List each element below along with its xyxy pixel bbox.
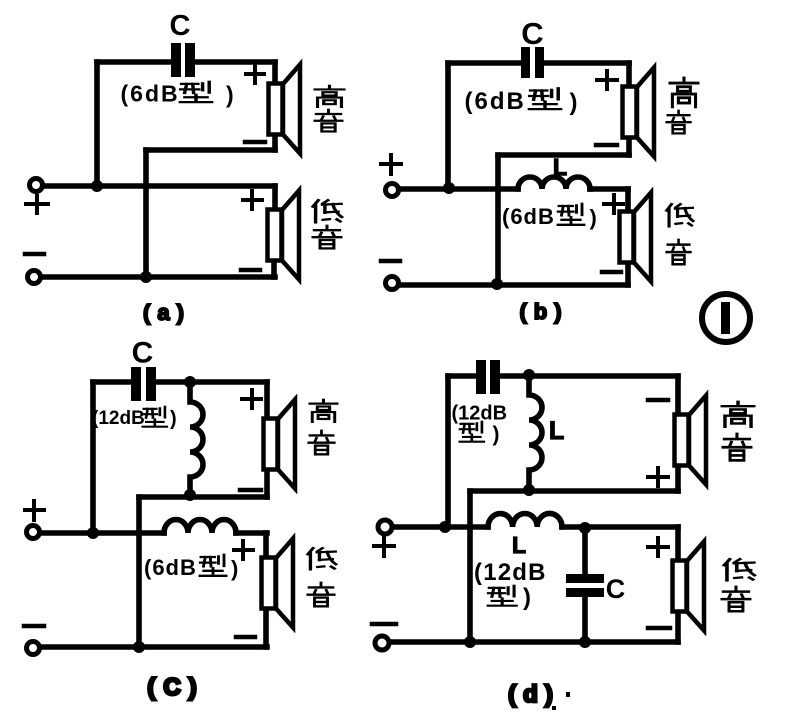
label - tweeter (d) [648, 398, 668, 403]
label 音 (c) [309, 431, 334, 455]
label + woofer (d) [648, 538, 668, 556]
wire b plus rail left [400, 186, 518, 192]
label 低 (a) [313, 200, 342, 222]
label 高 (a) [315, 86, 344, 107]
node junction (d) minus rail cap [579, 636, 591, 648]
wire d plus rail left [394, 524, 488, 530]
inductor L (b) [518, 177, 590, 189]
series inductor L (c) [164, 520, 236, 534]
node junction (c) plus rail [87, 527, 99, 539]
node junction (a) minus rail [140, 271, 152, 283]
wire a woofer bottom vertical [271, 260, 277, 277]
speaker tweeter (b) [623, 68, 655, 157]
svg-text:): ) [590, 205, 597, 230]
wire a tweeter minus vertical [143, 150, 149, 277]
svg-text:(12dB: (12dB [452, 403, 508, 425]
node junction (c) tweeter bottom [184, 489, 196, 501]
label - input (c) [24, 624, 44, 629]
terminal + (d) [378, 520, 392, 534]
wire d tweeter minus vertical [467, 491, 473, 642]
wire b woofer bottom vertical [625, 263, 631, 285]
wire c tweeter right vertical [264, 382, 270, 418]
terminal + (a) [30, 179, 43, 192]
label + woofer (a) [243, 191, 262, 209]
svg-text:L: L [553, 154, 567, 180]
node junction (c) top wire [184, 376, 196, 388]
speaker tweeter (c) [264, 400, 296, 489]
label 高 (c) [310, 400, 337, 422]
label 高 (d) [722, 402, 754, 427]
capacitor C (c) [131, 367, 156, 401]
node junction (d) plus rail left [439, 521, 451, 533]
label (6dB型) (a) [121, 81, 234, 108]
wire b woofer top vertical [625, 189, 631, 211]
shunt inductor L (c) [190, 382, 203, 494]
label - woofer (a) [241, 268, 260, 273]
terminal - (d) [375, 636, 389, 650]
speaker woofer (c) [262, 539, 294, 628]
label - woofer (b) [602, 270, 621, 275]
terminal - (c) [27, 642, 40, 655]
label 型) tweeter (d) [460, 422, 500, 446]
wire d woofer bottom vertical [675, 612, 681, 642]
shunt capacitor C (d) [566, 574, 604, 597]
svg-text:(C): (C) [147, 674, 204, 701]
svg-text:(6dB: (6dB [121, 81, 180, 107]
wire b minus rail [400, 282, 628, 288]
shunt inductor L (d) [529, 376, 542, 490]
speaker woofer (b) [620, 193, 652, 282]
wire c woofer bottom vertical [263, 607, 269, 647]
svg-text:(a): (a) [143, 300, 191, 325]
node junction (a) plus rail [91, 180, 103, 192]
wire a woofer top vertical [272, 186, 278, 209]
wire b top left [448, 60, 520, 66]
label 型) woofer (d) [488, 584, 531, 611]
label + tweeter (c) [242, 390, 261, 408]
wire a tweeter bottom [146, 147, 275, 153]
svg-text:(12dB: (12dB [474, 559, 547, 586]
label 低 (b) [667, 204, 693, 226]
svg-text:): ) [231, 556, 238, 581]
wire b top right [545, 60, 629, 66]
label + tweeter (b) [597, 71, 617, 89]
label + woofer (c) [234, 541, 253, 559]
capacitor C series (d) [476, 360, 500, 394]
wire b tweeter bottom [498, 152, 629, 158]
node junction (b) plus rail [443, 182, 455, 194]
wire b tweeter right vertical [626, 63, 632, 155]
wire c tweeter right vertical lower [264, 470, 270, 497]
series inductor L (d) [488, 513, 562, 527]
label 音 (a) [313, 226, 341, 249]
svg-text:): ) [493, 423, 500, 446]
capacitor C (a) [171, 43, 195, 77]
terminal - (a) [28, 271, 41, 284]
wire c top right [156, 379, 267, 385]
wire c left vertical [90, 382, 96, 533]
node junction (d) top wire [523, 369, 535, 381]
node junction (b) minus rail [491, 278, 503, 290]
svg-text:): ) [226, 82, 234, 108]
label (6dB型) (c) [144, 555, 238, 581]
node junction (d) tweeter bottom [523, 484, 535, 496]
wire c plus rail right [236, 530, 267, 536]
label 音 (d) [722, 587, 750, 611]
label 音 (c) [308, 583, 334, 607]
wire a left vertical [94, 62, 100, 186]
label + input (d) [374, 537, 394, 556]
label + input (a) [26, 196, 48, 213]
label 音 (a) [315, 110, 342, 132]
wire d tweeter bottom [470, 488, 678, 494]
svg-text:C: C [170, 10, 191, 42]
label (12dB型) (c) [92, 407, 177, 430]
wire c minus rail [41, 644, 267, 650]
wire a minus rail [42, 274, 275, 280]
wire a top right [195, 59, 275, 65]
wire c tweeter bottom [139, 494, 267, 500]
label (6dB型) woofer (b) [502, 204, 597, 230]
speaker tweeter (d) [675, 396, 707, 485]
label + input (c) [25, 501, 44, 520]
label - tweeter (c) [240, 488, 261, 493]
label - input (b) [381, 259, 400, 264]
wire d tweeter right vertical [675, 376, 681, 414]
shunt capacitor wire upper (d) [582, 527, 588, 573]
label + tweeter (d) [648, 468, 668, 486]
svg-text:(6dB: (6dB [144, 555, 197, 580]
wire d plus rail right [562, 524, 678, 530]
label - input (d) [372, 622, 396, 627]
label + woofer (b) [604, 195, 623, 213]
label 音 (d) [723, 434, 751, 460]
svg-text:(b): (b) [519, 299, 568, 324]
label - input (a) [25, 252, 44, 257]
svg-text:(d): (d) [508, 681, 560, 708]
wire c top left [93, 379, 130, 385]
speck below (d) [552, 706, 556, 710]
svg-text:): ) [170, 408, 177, 430]
wire b tweeter minus vertical [495, 155, 501, 284]
svg-text:): ) [570, 89, 578, 116]
label - woofer (d) [648, 626, 670, 631]
node junction (d) plus rail cap tap [579, 522, 591, 534]
label - tweeter (a) [245, 140, 265, 145]
label + tweeter (a) [246, 65, 264, 83]
shunt capacitor wire lower (d) [582, 596, 588, 642]
wire c tweeter minus vertical [136, 497, 142, 647]
label (6dB型) (b) [465, 88, 578, 116]
svg-text:(6dB: (6dB [502, 204, 555, 229]
label 高 (b) [670, 78, 698, 107]
wire c plus rail left [41, 530, 164, 536]
label 低 (d) [724, 559, 754, 580]
svg-text:C: C [132, 337, 154, 370]
svg-text:(6dB: (6dB [465, 88, 526, 115]
wire d left vertical [445, 376, 451, 527]
wire d top right [501, 373, 678, 379]
wire d woofer top vertical [675, 527, 681, 560]
wire b plus rail right [590, 186, 628, 192]
svg-text:(12dB: (12dB [92, 408, 145, 429]
wire a plus rail [44, 183, 275, 189]
figure number circled 1 [702, 294, 750, 342]
wire a tweeter right vertical [272, 62, 278, 150]
node junction (d) minus rail left [464, 636, 476, 648]
terminal + (c) [27, 526, 40, 539]
speck right of (d) [566, 692, 570, 697]
speaker woofer (a) [268, 191, 300, 280]
speaker tweeter (a) [269, 65, 301, 154]
wire d top left [448, 373, 475, 379]
capacitor C (b) [521, 47, 544, 78]
label 音 (b) [667, 111, 691, 134]
wire c woofer top vertical [263, 533, 269, 557]
wire d minus rail [391, 639, 678, 645]
svg-text:L: L [512, 532, 526, 558]
label - tweeter (b) [596, 143, 617, 148]
terminal + (b) [386, 184, 399, 197]
node junction (c) minus rail [133, 641, 145, 653]
svg-text:): ) [523, 584, 531, 611]
svg-text:C: C [606, 574, 626, 604]
label 音 (b) [667, 240, 691, 264]
label - woofer (c) [236, 635, 255, 640]
wire a top left [97, 59, 171, 65]
wire b left vertical [445, 63, 451, 188]
label 低 (c) [308, 548, 336, 569]
label + input (b) [381, 155, 401, 174]
terminal - (b) [386, 277, 399, 290]
svg-text:C: C [521, 16, 543, 51]
wire d tweeter right vertical lower [675, 466, 681, 491]
speaker woofer (d) [673, 542, 705, 631]
svg-text:L: L [549, 417, 564, 445]
